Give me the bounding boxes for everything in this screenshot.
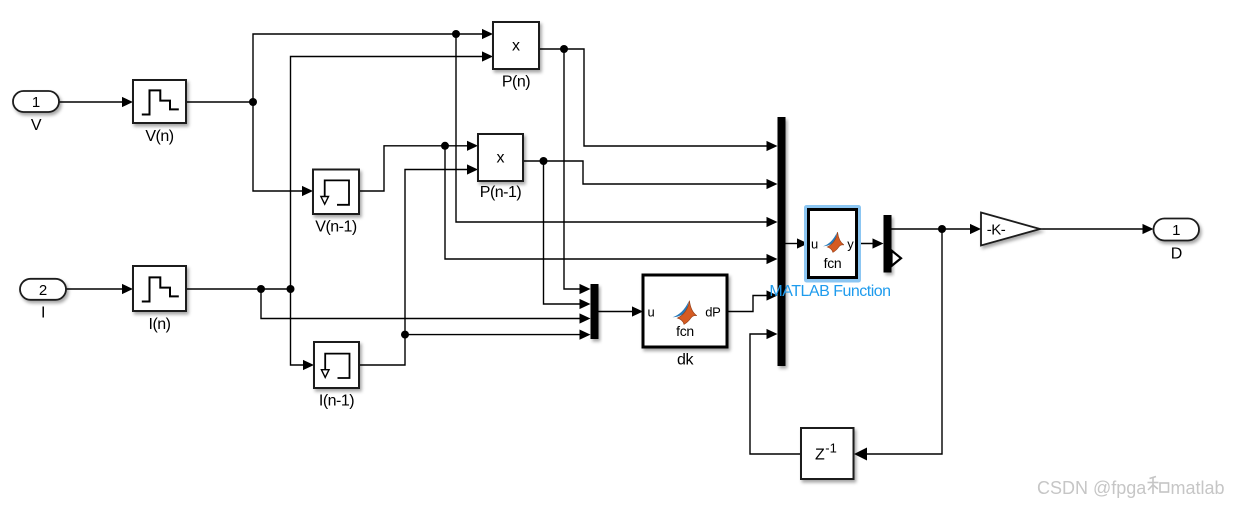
junction node F xyxy=(401,331,409,339)
junction node B xyxy=(452,30,460,38)
svg-text:2: 2 xyxy=(39,282,47,299)
wire MATLAB Function y to demux xyxy=(857,243,874,245)
arrowhead into P(n) input1 xyxy=(482,29,493,39)
arrowhead into dk u xyxy=(632,306,643,316)
wire node H down to small mux input2 xyxy=(544,161,581,304)
wire port2 I to I(n) xyxy=(66,288,123,290)
block V(n-1) memory xyxy=(313,170,359,215)
arrowhead into Z-1 right side xyxy=(854,448,867,461)
junction node C xyxy=(257,285,265,293)
svg-text:1: 1 xyxy=(32,94,40,111)
svg-text:x: x xyxy=(512,38,520,55)
svg-text:x: x xyxy=(497,150,505,167)
arrowhead into P(n) input2 xyxy=(482,51,493,61)
svg-text:P(n-1): P(n-1) xyxy=(480,184,522,201)
wire node J down to Z-1 input xyxy=(866,229,942,454)
arrowhead small mux input3 xyxy=(580,313,591,323)
svg-text:y: y xyxy=(847,237,854,252)
wire node E down to big mux input4 xyxy=(445,146,768,259)
junction node H xyxy=(540,157,548,165)
gain -K- xyxy=(981,213,1040,246)
arrowhead into P(n-1) input1 xyxy=(467,141,478,151)
wire dk dP out to big mux input5 xyxy=(727,296,768,312)
svg-text:V: V xyxy=(31,117,42,134)
junction node E xyxy=(441,142,449,150)
block P(n-1) product xyxy=(478,134,523,181)
arrowhead big mux input4 xyxy=(767,254,778,264)
arrowhead big mux input1 xyxy=(767,141,778,151)
junction node J xyxy=(938,225,946,233)
inport 1 V xyxy=(13,91,59,112)
wire demux out1 to node J and gain xyxy=(892,228,972,230)
svg-text:u: u xyxy=(811,237,818,252)
block dk MATLAB Function xyxy=(643,275,727,347)
arrowhead small mux input4 xyxy=(580,330,591,340)
svg-text:1: 1 xyxy=(1172,222,1180,239)
block Z-1 unit delay xyxy=(801,428,854,479)
block P(n) product xyxy=(493,22,539,69)
wire V(n-1) out to P(n-1) input1 xyxy=(359,146,468,191)
arrowhead into V(n) xyxy=(122,97,133,107)
wire node C down to small mux input3 xyxy=(261,289,581,319)
arrowhead into gain xyxy=(970,224,981,234)
outport 1 D xyxy=(1154,219,1200,241)
wire node A down to V(n-1) input xyxy=(253,102,303,191)
arrowhead into V(n-1) xyxy=(302,186,313,196)
wire node G down to small mux input1 xyxy=(564,49,581,289)
arrowhead into outport D xyxy=(1143,224,1154,234)
junction node G xyxy=(560,45,568,53)
wire P(n-1) out to big mux input2 xyxy=(523,161,768,184)
arrowhead into I(n-1) xyxy=(303,360,314,370)
arrowhead small mux input1 xyxy=(580,284,591,294)
wire node D up to P(n) input2 xyxy=(291,57,484,290)
arrowhead big mux input2 xyxy=(767,179,778,189)
arrowhead big mux input3 xyxy=(767,217,778,227)
wire Z-1 out up to big mux input6 xyxy=(750,334,801,454)
wire port1 V to V(n) xyxy=(59,101,123,103)
svg-text:-1: -1 xyxy=(825,441,837,456)
svg-text:I(n-1): I(n-1) xyxy=(319,393,354,410)
arrowhead big mux input6 xyxy=(767,329,778,339)
block I(n-1) memory xyxy=(314,342,359,388)
svg-text:I(n): I(n) xyxy=(149,316,171,333)
wire I(n) out to node C and node D xyxy=(186,288,291,290)
svg-text:fcn: fcn xyxy=(824,255,842,271)
svg-text:Z: Z xyxy=(815,447,825,464)
wire node B down to big mux input3 xyxy=(456,34,768,222)
svg-text:u: u xyxy=(648,305,655,320)
svg-text:V(n): V(n) xyxy=(145,128,173,145)
wire big mux out to MATLAB Function u xyxy=(786,243,799,245)
wire P(n) out to big mux input1 xyxy=(539,49,768,146)
block I(n) sample-hold xyxy=(133,266,186,311)
arrowhead big mux input5 xyxy=(767,290,778,300)
arrowhead into MATLAB Function u xyxy=(797,238,808,248)
demux Demux xyxy=(884,215,902,273)
svg-text:V(n-1): V(n-1) xyxy=(315,219,357,236)
wire node D down to I(n-1) input xyxy=(291,289,305,365)
svg-text:D: D xyxy=(1171,246,1182,263)
arrowhead into demux xyxy=(873,238,884,248)
wire small mux out to dk u xyxy=(599,311,634,313)
svg-text:dP: dP xyxy=(705,305,720,320)
wire V(n) out to node A xyxy=(186,101,253,103)
arrowhead into I(n) xyxy=(122,284,133,294)
arrowhead small mux input2 xyxy=(580,299,591,309)
junction node A xyxy=(249,98,257,106)
svg-text:P(n): P(n) xyxy=(502,74,530,91)
wire node A up to P(n) input1 xyxy=(253,34,483,102)
small mux Mux1 xyxy=(591,284,599,339)
block V(n) sample-hold xyxy=(133,80,186,123)
svg-text:MATLAB Function: MATLAB Function xyxy=(769,283,890,300)
big mux Mux2 xyxy=(778,117,786,366)
svg-text:I: I xyxy=(41,305,45,322)
wire I(n-1) out up to P(n-1) input2 xyxy=(359,170,468,366)
wire node F to small mux input4 xyxy=(405,334,581,336)
inport 2 I xyxy=(20,279,66,300)
svg-text:-K-: -K- xyxy=(987,222,1006,239)
watermark CSDN @fpga和matlab xyxy=(1037,477,1225,499)
svg-text:fcn: fcn xyxy=(676,323,694,339)
svg-text:CSDN @fpga: CSDN @fpga xyxy=(1037,478,1147,498)
arrowhead into P(n-1) input2 xyxy=(467,164,478,174)
junction node D xyxy=(287,285,295,293)
wire gain out to outport D xyxy=(1040,228,1144,230)
block MATLAB Function (selected, blue halo) xyxy=(804,205,861,283)
svg-text:matlab: matlab xyxy=(1171,478,1225,498)
svg-text:dk: dk xyxy=(677,352,694,369)
